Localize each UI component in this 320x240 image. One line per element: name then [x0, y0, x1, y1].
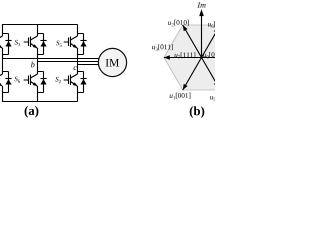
- label u5[101]: [210, 94, 231, 101]
- label u7[111]: [175, 52, 196, 58]
- phase line c: [78, 64, 101, 66]
- transistor+diode switch S1 (top leg 1): [0, 34, 12, 55]
- label S6: [14, 77, 20, 83]
- phase line a: [3, 58, 101, 60]
- node b label: [31, 62, 34, 68]
- phase line b: [38, 61, 101, 63]
- caption (b): [190, 106, 205, 118]
- vector u5: [202, 58, 221, 90]
- Im axis: [199, 9, 204, 57]
- label u6[110]: [208, 21, 229, 28]
- label u0[000]: [203, 52, 224, 59]
- label S2: [55, 77, 61, 83]
- transistor+diode switch S5 (top leg 3): [64, 34, 87, 55]
- label S5: [56, 41, 62, 47]
- wire leg 1 vertical: [2, 25, 4, 102]
- node c label: [74, 66, 77, 70]
- hexagon boundary: [164, 25, 239, 90]
- label u2[010]: [168, 20, 189, 26]
- vector u6: [202, 25, 221, 57]
- transistor+diode switch S3 (top leg 2): [24, 34, 47, 55]
- vector u1: [183, 58, 202, 90]
- label u3[011]: [152, 44, 173, 51]
- induction motor IM: [98, 48, 126, 76]
- transistor+diode switch S2 (bottom leg 3): [64, 72, 87, 93]
- transistor+diode switch S6 (bottom leg 2): [24, 72, 47, 93]
- vector u2: [183, 25, 202, 57]
- wire leg 3 vertical: [77, 25, 79, 102]
- label u1[001]: [170, 93, 191, 99]
- caption (a): [25, 106, 39, 118]
- vector u3: [164, 55, 202, 59]
- transistor+diode switch S4 (bottom leg 1): [0, 72, 12, 93]
- vector u4: [202, 57, 240, 59]
- label S3: [15, 40, 21, 46]
- top DC rail: [2, 24, 78, 26]
- wire leg 2 vertical: [37, 25, 39, 102]
- label Im: [197, 2, 205, 7]
- bottom DC rail: [2, 101, 78, 103]
